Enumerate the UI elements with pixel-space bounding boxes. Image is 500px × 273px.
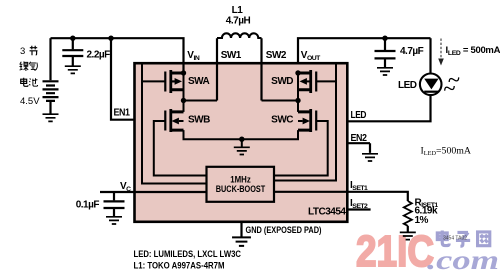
node: SWA-SWB-SW1 bbox=[181, 98, 186, 103]
LED D1 circle bbox=[420, 74, 442, 96]
wire: SWA drain connector bbox=[183, 73, 185, 101]
transistor SWD bbox=[298, 70, 316, 93]
wire: LED string down bbox=[429, 38, 431, 73]
svg-text:4.7µF: 4.7µF bbox=[400, 46, 424, 57]
capacitor C-OUT 4.7uF stub bbox=[384, 38, 386, 67]
svg-text:4.7µH: 4.7µH bbox=[226, 16, 251, 27]
svg-text:SWC: SWC bbox=[271, 115, 293, 126]
svg-text:L1: TOKO A997AS-4R7M: L1: TOKO A997AS-4R7M bbox=[134, 260, 225, 270]
ground: bridge center bbox=[234, 147, 250, 154]
wire: GND exposed pad stub bbox=[240, 222, 242, 237]
svg-text:2.2µF: 2.2µF bbox=[87, 50, 111, 61]
svg-text:SWB: SWB bbox=[188, 115, 210, 126]
svg-text:21IC: 21IC bbox=[356, 227, 434, 273]
capacitor C-VC 0.1uF stub bbox=[113, 192, 115, 216]
IC internal wires bbox=[142, 64, 336, 184]
battery B1 plates bbox=[43, 81, 59, 101]
svg-text:ISET2: ISET2 bbox=[350, 198, 368, 210]
transistor SWB bbox=[165, 109, 183, 132]
buck-boost control block bbox=[207, 167, 275, 202]
svg-text:3: 3 bbox=[20, 46, 25, 57]
svg-text:LED: LED bbox=[398, 80, 417, 91]
node: cap4.7 top bbox=[382, 36, 387, 41]
wire: ISET2 stub bbox=[347, 208, 370, 210]
node: EN1 branch bbox=[108, 36, 113, 41]
hanzi chi (pool) bbox=[29, 78, 38, 86]
svg-text:VIN: VIN bbox=[187, 50, 200, 62]
svg-text:BUCK-BOOST: BUCK-BOOST bbox=[216, 184, 266, 194]
capacitor 2.2uF plates bbox=[62, 50, 83, 56]
capacitor 0.1uF plates bbox=[104, 201, 125, 208]
ground: RSET1 bbox=[400, 232, 416, 239]
svg-text:EN1: EN1 bbox=[114, 108, 131, 119]
transistor SWC bbox=[298, 109, 316, 132]
hanzi dian (electric) bbox=[21, 78, 28, 87]
wire: ISET1 to resistor bbox=[274, 192, 408, 201]
wire: SWC gate bus bbox=[274, 121, 328, 176]
svg-text:SWA: SWA bbox=[188, 76, 210, 87]
svg-text:VC: VC bbox=[120, 181, 131, 193]
watermark 21IC bbox=[356, 227, 434, 273]
resistor RSET1 zigzag bbox=[404, 201, 412, 226]
wire: SWD gate bus bbox=[274, 64, 337, 181]
svg-text:.com: .com bbox=[427, 245, 499, 273]
resistor RSET1 lower lead bbox=[407, 226, 409, 232]
hanzi qing (hydrogen) bbox=[29, 62, 37, 70]
svg-text:LTC3454: LTC3454 bbox=[308, 207, 346, 218]
battery lead top bbox=[49, 38, 51, 80]
capacitor C-IN 2.2uF stub bbox=[72, 38, 74, 66]
svg-text:SW2: SW2 bbox=[266, 50, 287, 61]
ground: VC cap bbox=[106, 217, 122, 224]
svg-text:LED: LED bbox=[351, 110, 367, 121]
node: VIN-SWA bbox=[181, 70, 186, 75]
svg-text:ILED=500mA: ILED=500mA bbox=[421, 146, 471, 158]
wire: VC into buck-boost bbox=[100, 191, 208, 193]
svg-text:LED: LUMILEDS, LXCL LW3C: LED: LUMILEDS, LXCL LW3C bbox=[134, 249, 242, 259]
ground: 2.2uF bbox=[65, 66, 81, 73]
wire: SWB gate bus bbox=[154, 121, 208, 176]
wire: SWB source to center gnd bbox=[184, 130, 242, 139]
current arrow ILED dashed bbox=[440, 39, 442, 59]
node: SWD-SWC-SW2 bbox=[295, 98, 300, 103]
wire: VOUT top rail bbox=[298, 38, 431, 63]
LED D1 triangle bbox=[424, 79, 438, 90]
wire: SWA gate bus bbox=[142, 64, 208, 184]
svg-text:SW1: SW1 bbox=[221, 50, 242, 61]
transistor SWA bbox=[165, 70, 183, 93]
svg-text:GND (EXPOSED PAD): GND (EXPOSED PAD) bbox=[246, 225, 322, 235]
LED light squiggles bbox=[444, 75, 460, 93]
svg-text:1MHz: 1MHz bbox=[230, 174, 251, 184]
wire: EN2 pin stub bbox=[347, 143, 370, 153]
wire: SW2 junction horizontal bbox=[262, 100, 299, 102]
svg-text:SWD: SWD bbox=[271, 76, 293, 87]
wire: SWC source to center gnd bbox=[242, 130, 298, 139]
wire: EN1 drop from top rail bbox=[111, 38, 135, 120]
svg-text:3454 TA02: 3454 TA02 bbox=[443, 236, 467, 242]
LED D1 cathode bar bbox=[424, 91, 438, 93]
svg-text:0.1µF: 0.1µF bbox=[76, 199, 100, 210]
hanzi nie (nickel) bbox=[20, 62, 29, 71]
svg-text:L1: L1 bbox=[232, 5, 244, 16]
inductor L1 left/right verticals bbox=[217, 38, 262, 100]
svg-text:VOUT: VOUT bbox=[301, 50, 321, 62]
wire: SWD drain connector bbox=[297, 73, 299, 101]
node: bridge ground bbox=[239, 137, 244, 142]
ground: 4.7uF bbox=[377, 68, 393, 75]
wire: LED bottom to LED pin bbox=[347, 95, 430, 121]
wire: SWB top connector bbox=[183, 101, 185, 112]
ground: EN2 bbox=[362, 154, 378, 161]
wire: SWC top connector bbox=[297, 101, 299, 112]
node: VOUT-SWD bbox=[295, 70, 300, 75]
capacitor 4.7uF plates bbox=[375, 51, 396, 58]
ground: battery bbox=[43, 114, 59, 121]
wire: battery top to VIN bend bbox=[51, 38, 184, 73]
node: cap2.2 top bbox=[70, 36, 75, 41]
svg-text:1%: 1% bbox=[415, 215, 429, 226]
ground: exposed pad bbox=[232, 237, 251, 245]
wire: center gnd stub bbox=[241, 139, 243, 147]
watermark 电子网 bbox=[437, 231, 489, 247]
svg-text:ILED = 500mA: ILED = 500mA bbox=[446, 45, 500, 57]
battery lead bottom bbox=[49, 102, 51, 114]
svg-text:4.5V: 4.5V bbox=[20, 96, 40, 107]
hanzi jie (cell) bbox=[30, 46, 38, 55]
svg-text:ISET1: ISET1 bbox=[350, 180, 368, 192]
wire: SW1 junction horizontal bbox=[184, 100, 218, 102]
inductor L1 humps bbox=[217, 33, 262, 38]
svg-text:EN2: EN2 bbox=[351, 133, 368, 144]
IC LTC3454 body bbox=[135, 63, 348, 222]
